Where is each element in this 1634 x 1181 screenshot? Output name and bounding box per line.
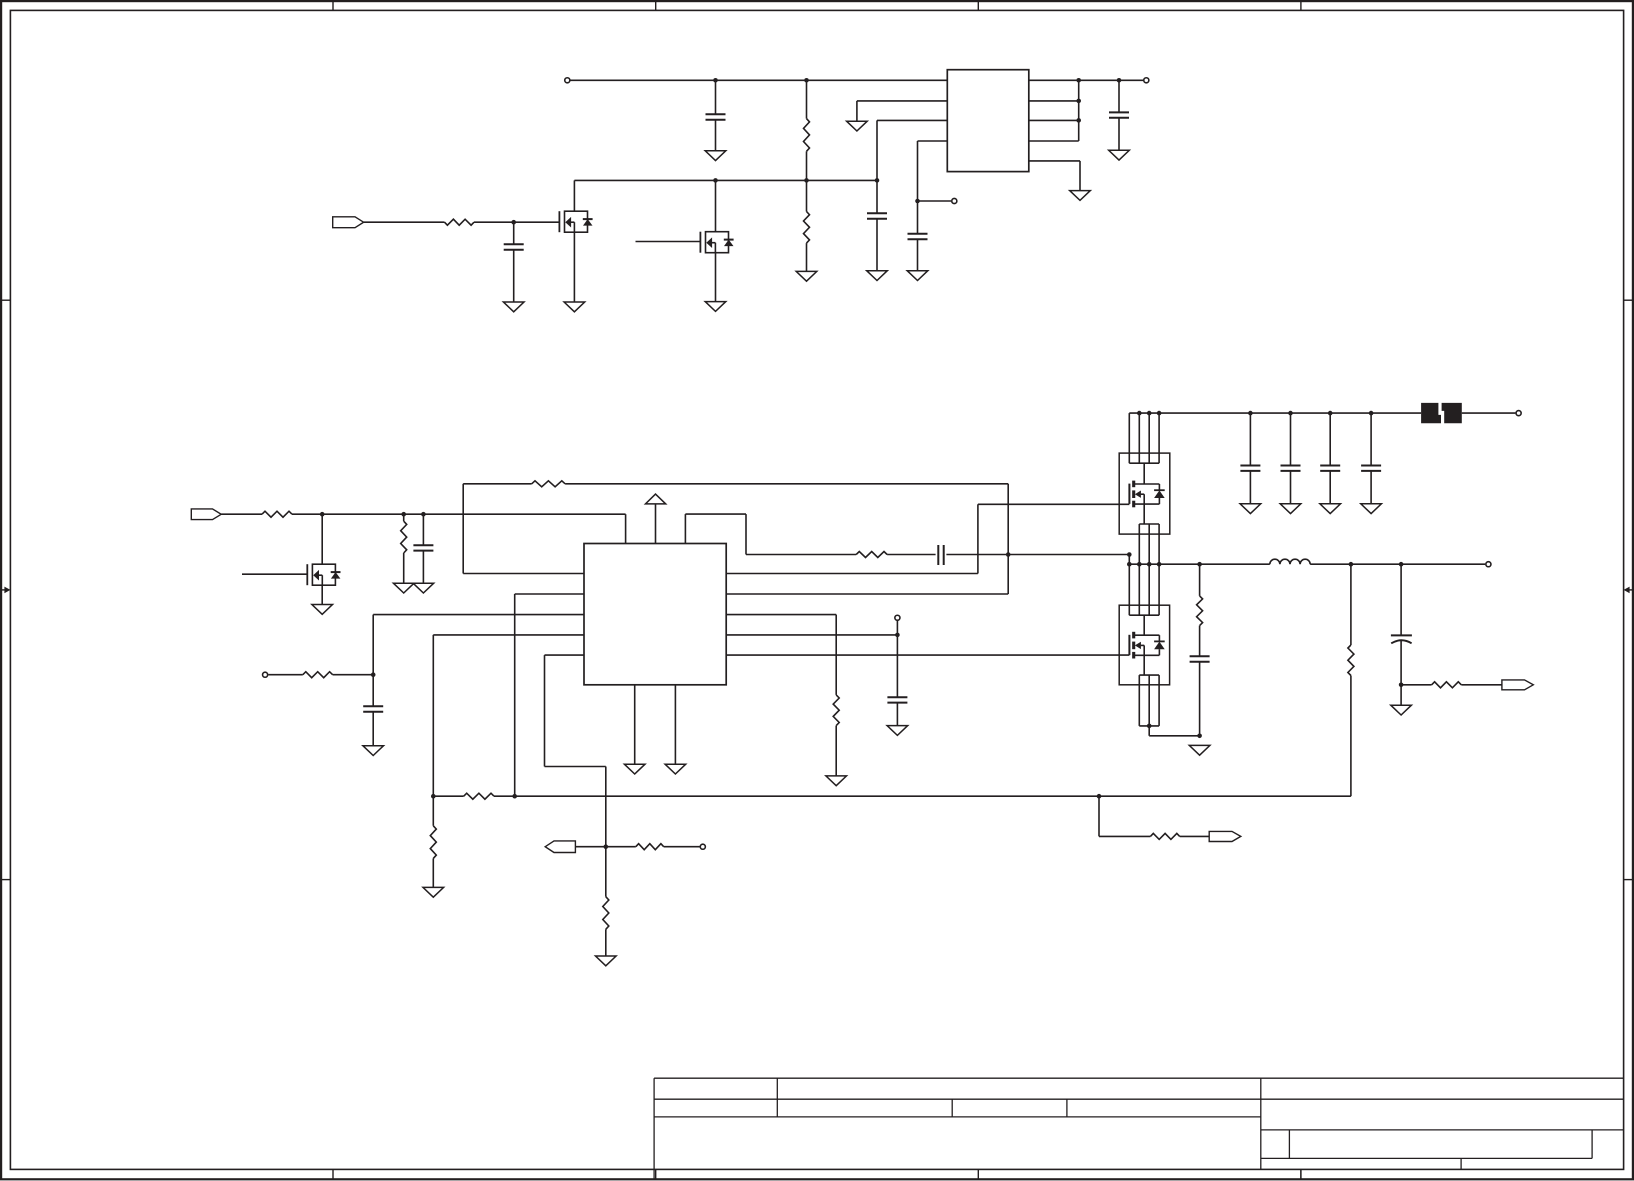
ic U2 [584, 544, 726, 685]
wire Q5 source to ground [1149, 726, 1199, 736]
junction VIN2 c12 [1328, 411, 1333, 416]
wire U1 out bus [1029, 79, 1143, 81]
junction VOUT cap [1399, 562, 1404, 567]
wire Q1 source stem [573, 232, 575, 302]
wire VCC node rail [292, 513, 626, 515]
module Q5 source pins [1139, 675, 1159, 726]
module Q5 outline [1119, 605, 1169, 685]
wire R7 to C7 [887, 554, 936, 556]
junction at Q3 drain [320, 512, 325, 517]
capacitor C12 [1320, 413, 1340, 504]
node SS terminal [263, 672, 268, 677]
ground under Q2 [705, 302, 726, 312]
ground under C5 [1109, 150, 1130, 160]
junction SW snubber [1197, 562, 1202, 567]
fuse F1 [1421, 403, 1462, 423]
wire U2 ilim pin link [545, 655, 606, 847]
junction BST node [1006, 552, 1011, 557]
junction VIN2 q2b [1147, 411, 1152, 416]
junction EN at Q2 [713, 178, 718, 183]
capacitor C7 series [938, 545, 1008, 565]
ground at U1 pin5 [1070, 191, 1091, 201]
junction VIN2 q2c [1157, 411, 1162, 416]
wire R12 to flag [1461, 684, 1502, 686]
capacitor C13 [1361, 413, 1381, 504]
power arrow VCC U2 [646, 494, 666, 544]
ground under C2 [503, 302, 524, 312]
junction on VIN1 bus at C1 [713, 78, 718, 83]
junction BST at module [1127, 552, 1132, 557]
connector flag VOUT sense [1502, 680, 1533, 690]
connector flag FB out [1209, 831, 1241, 841]
resistor R11 divider top [1348, 564, 1354, 796]
wire R15 to flag [1180, 835, 1210, 837]
junction C15 bottom [1399, 683, 1404, 688]
ground under C1 [705, 151, 726, 161]
ground under C15 [1391, 705, 1412, 715]
junction VOUT fb [1349, 562, 1354, 567]
junction SW b [1137, 562, 1142, 567]
wire U2 comp pin link [433, 635, 584, 796]
wire U2 gnd pin A [634, 685, 636, 764]
node VOUT terminal [1486, 562, 1491, 567]
capacitor C15 output [1391, 564, 1412, 685]
wire U2 VIN pin drop [625, 514, 627, 543]
junction out bus B [1117, 78, 1122, 83]
ground under C12 [1320, 504, 1341, 514]
ground under R14 [423, 887, 444, 897]
ic U1 [947, 70, 1029, 172]
ground under R9 [826, 776, 847, 786]
resistor R12 [1432, 682, 1462, 688]
node BP terminal [952, 198, 957, 203]
wire U2 OC pin path [726, 615, 836, 695]
junction at C6 [421, 512, 426, 517]
resistor R17 cs [603, 847, 609, 956]
junction EN at C3 riser [875, 178, 880, 183]
wire Q3 drain stem [321, 514, 323, 564]
wire U2 SS pin link [373, 615, 584, 675]
node CS terminal [700, 844, 705, 849]
wire R16 to terminal [664, 846, 700, 848]
ground under C4 [907, 271, 928, 281]
junction FB rail right [1097, 794, 1102, 799]
wire C15 to ground [1400, 685, 1402, 705]
capacitor C6 [413, 514, 433, 583]
capacitor C2 [504, 222, 524, 302]
ground under Q3 [312, 605, 333, 615]
junction VIN2 c10 [1248, 411, 1253, 416]
junction tie pin2 [1076, 99, 1081, 104]
connector flag IN2 [191, 509, 221, 520]
capacitor C5 [1109, 80, 1129, 150]
resistor R7 boot [856, 552, 887, 558]
junction FB rail left [431, 794, 436, 799]
wire U2 HG pin path [726, 504, 1129, 573]
resistor R5 [401, 514, 407, 583]
wire VIN1 bus [571, 79, 948, 81]
junction SS node [371, 672, 376, 677]
node VIN2 terminal [1516, 411, 1521, 416]
junction on VIN1 bus at R1 [804, 78, 809, 83]
transistor Q3 [307, 564, 340, 585]
junction VIN2 q2a [1137, 411, 1142, 416]
wire FB right drop [1007, 484, 1009, 555]
node VOUT1 terminal [1144, 78, 1149, 83]
ground under C8 [363, 746, 384, 756]
wire F1 to terminal [1462, 412, 1516, 414]
capacitor C1 [706, 80, 726, 151]
capacitor C11 [1281, 413, 1301, 504]
wire U1 out tie bus [1029, 80, 1079, 141]
capacitor C8 [363, 675, 383, 746]
wire U2 boot pin path [685, 514, 856, 554]
junction BP node [915, 199, 920, 204]
wire BP stub [918, 200, 952, 202]
wire BST to SW riser [1008, 555, 1129, 565]
wire Q3 gate stub [242, 573, 307, 575]
wire Q3 source stem [321, 585, 323, 604]
ground under C13 [1361, 504, 1382, 514]
wire U2 vreg pin [726, 634, 897, 636]
junction out bus A [1076, 78, 1081, 83]
wire SW rail [1129, 563, 1270, 565]
connector flag CS [545, 841, 575, 853]
ground under R3 [796, 271, 817, 281]
ground under C6 [413, 583, 434, 593]
wire R2 to Q1 gate [474, 221, 559, 223]
ground at U2 pin A [624, 764, 645, 774]
transistor Q5 symbol [1129, 632, 1164, 675]
wire VIN2 rail [1129, 412, 1421, 414]
capacitor C9 [887, 635, 907, 726]
inductor L1 [1270, 559, 1310, 564]
capacitor C4 [908, 201, 928, 271]
resistor R3 [804, 180, 810, 271]
node VIN1 terminal [565, 78, 570, 83]
junction SW a [1127, 562, 1132, 567]
junction EN at R1 [804, 178, 809, 183]
junction at C2 [511, 220, 516, 225]
wire FB tap to flag line [1099, 796, 1150, 836]
module Q4 source pins [1139, 524, 1159, 564]
junction VREG node [895, 633, 900, 638]
resistor R4 [262, 511, 292, 517]
wire Q2 gate stub [636, 241, 701, 243]
junction VIN2 c13 [1369, 411, 1374, 416]
resistor R10 snubber [1197, 564, 1203, 656]
resistor R13 on rail [464, 793, 494, 799]
ground under C3 [867, 271, 888, 281]
resistor R14 divider low [430, 796, 436, 887]
transistor Q1 [559, 211, 592, 232]
capacitor C3 [867, 180, 887, 270]
wire SS stub to R8 [268, 674, 303, 676]
module Q4 drain pins [1129, 413, 1159, 484]
wire U1 pin4 to BP node [918, 141, 948, 201]
junction tie pin3 [1076, 118, 1081, 123]
node VREG terminal [895, 615, 900, 620]
wire IN1 to R2 [364, 221, 445, 223]
wire to AGND flag [1401, 684, 1432, 686]
resistor R8 [303, 672, 333, 678]
resistor R15 [1150, 833, 1179, 839]
transistor Q2 [700, 232, 733, 253]
wire U2 FB pin link [515, 594, 584, 796]
resistor R6 feedback [532, 481, 565, 487]
junction SW c [1147, 562, 1152, 567]
wire U1 pin5 to ground [1029, 161, 1080, 191]
junction module ground [1197, 734, 1202, 739]
wire Q2 top stem [715, 180, 717, 231]
wire CS to R16 [606, 846, 636, 848]
transistor Q4 symbol [1129, 481, 1164, 524]
wire Q2 source stem [715, 253, 717, 302]
ground under Q1 [564, 302, 585, 312]
wire U1 pin3 riser [877, 120, 947, 180]
junction FB rail mid [512, 794, 517, 799]
module Q4 outline [1119, 453, 1170, 534]
ground under R5 [393, 583, 414, 593]
wire FB bottom rail [433, 795, 1351, 797]
wire VOUT rail [1310, 563, 1485, 565]
wire U2 gnd pin B [674, 685, 676, 764]
wire VREG stub up [896, 621, 898, 635]
ground at U2 pin B [665, 764, 686, 774]
junction SW d [1157, 562, 1162, 567]
wire U2 BST pin path [726, 555, 1008, 595]
ground at U1 pin2 [847, 121, 868, 131]
wire CS flag to node [575, 846, 605, 848]
capacitor C14 snubber [1190, 656, 1210, 736]
wire net EN rail [574, 180, 877, 211]
junction at R5 [401, 512, 406, 517]
junction CS node [604, 844, 609, 849]
wire IN2 to R4 [221, 513, 262, 515]
junction Q5 source [1147, 724, 1152, 729]
connector flag IN1 [333, 217, 364, 228]
wire U2 LG pin path [726, 654, 1129, 656]
ground under R17 [596, 956, 617, 966]
resistor R9 [833, 695, 839, 776]
ground under C11 [1280, 504, 1301, 514]
resistor R2 [445, 219, 475, 225]
wire FB top line [463, 484, 1008, 574]
ground under C9 [887, 726, 908, 736]
ground module [1189, 745, 1210, 755]
junction VIN2 c11 [1288, 411, 1293, 416]
wire R8 to SS node [333, 674, 374, 676]
resistor R16 [636, 844, 664, 850]
wire U1 pin2 to ground [857, 101, 947, 121]
capacitor C10 [1240, 413, 1260, 504]
module Q5 drain pins [1129, 564, 1159, 635]
ground under C10 [1240, 504, 1261, 514]
resistor R1 [804, 80, 810, 180]
